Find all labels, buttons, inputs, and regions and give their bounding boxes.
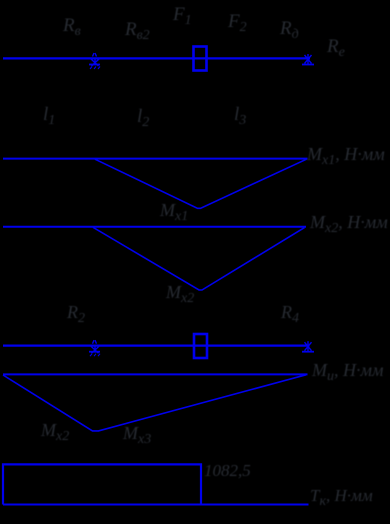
svg-text:Rв2: Rв2 [124,19,150,43]
support A (left pin) of beam 2 [89,340,100,356]
baseline of diagram M_x1 [3,158,308,160]
triangle of diagram M_i [3,375,306,431]
support B (right) of beam 1 [302,54,314,65]
svg-text:Ми, Н·мм: Ми, Н·мм [311,360,384,384]
svg-text:R2: R2 [66,302,85,326]
svg-text:l2: l2 [137,106,149,130]
torque rectangle diagram [3,464,201,504]
torque diagram axis [3,504,309,506]
beam 2 [3,345,310,347]
baseline of diagram M_x2 [3,226,306,228]
support A (left pin) of beam 1 [89,53,100,69]
svg-text:Мх1, Н·мм: Мх1, Н·мм [306,144,385,168]
svg-text:l1: l1 [43,104,55,128]
svg-text:l3: l3 [234,104,246,128]
baseline of diagram M_i [3,373,308,375]
svg-text:Тк, Н·мм: Тк, Н·мм [310,486,373,509]
svg-text:Мх3: Мх3 [122,423,151,447]
support B (right) of beam 2 [302,341,314,352]
element box on beam 1 [194,47,207,71]
svg-text:Мх2: Мх2 [165,282,194,306]
triangle of diagram M_x1 [95,159,307,208]
svg-text:Rе: Rе [326,36,345,60]
svg-text:Мх1: Мх1 [159,200,188,224]
svg-text:F2: F2 [227,11,247,35]
beam 1 [3,57,310,59]
svg-text:Мх2, Н·мм: Мх2, Н·мм [309,212,388,236]
triangle of diagram M_x2 [93,227,305,290]
svg-text:Rв: Rв [62,15,81,39]
svg-text:Мх2: Мх2 [40,420,69,444]
svg-text:1082,5: 1082,5 [204,461,251,480]
svg-text:F1: F1 [172,4,192,28]
element box on beam 2 [194,334,207,358]
svg-text:R4: R4 [280,302,299,326]
svg-text:Rд: Rд [279,18,299,42]
